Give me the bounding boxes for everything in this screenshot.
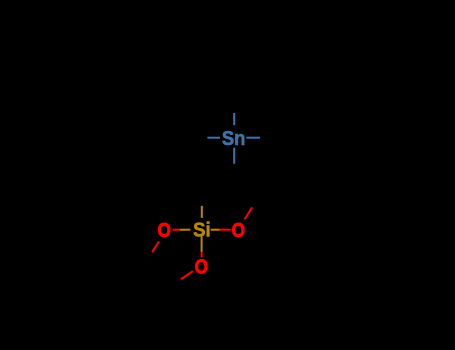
bond Si-O right (O half) xyxy=(220,229,231,231)
bond O-CH3 of left methoxy (O half) xyxy=(152,242,159,253)
bond Si-O right (Si half) xyxy=(211,229,220,231)
svg-text:O: O xyxy=(195,257,208,279)
bond Si-O down (Si half) xyxy=(201,237,203,252)
bond Sn-C down (Sn half) xyxy=(233,148,235,164)
bond Sn-CH3 left (Sn half) xyxy=(207,137,220,139)
bond O-CH3 of bottom methoxy (O half) xyxy=(181,271,193,279)
bond Si-O down (O half) xyxy=(201,252,203,257)
svg-text:Si: Si xyxy=(193,220,211,242)
bond Si-CH3 up (Si half) xyxy=(201,206,203,218)
bond Sn-CH3 right (Sn half) xyxy=(246,137,260,139)
bond Sn-CH3 up (Sn half) xyxy=(233,113,235,125)
svg-text:O: O xyxy=(232,220,245,242)
bond Si-O left (O half) xyxy=(173,229,180,231)
bond O-C2 of silyl enol ether (O half) xyxy=(245,207,253,219)
bond Si-O left (Si half) xyxy=(180,229,191,231)
svg-text:Sn: Sn xyxy=(222,128,246,150)
svg-text:O: O xyxy=(158,220,171,242)
